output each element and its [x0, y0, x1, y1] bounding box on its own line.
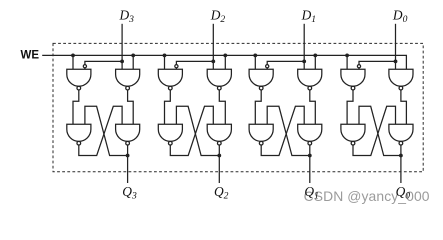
svg-text:WE: WE [21, 50, 40, 62]
svg-text:D3: D3 [119, 8, 135, 26]
label Q2 output [214, 184, 229, 202]
junction dot Q3 node [126, 154, 130, 158]
nand gate U1B (D1 and WE) [298, 69, 322, 90]
junction dot D0 tap [394, 60, 398, 64]
junction dot Q0 node [399, 154, 403, 158]
wire U3A output to latch reset input [73, 90, 79, 124]
wire D3 tap to inverted input [85, 61, 122, 64]
wire Q0 feedback to U0C input (cross-couple) [359, 106, 401, 155]
label D1 data input [301, 8, 316, 26]
junction dot Q2 node [217, 154, 221, 158]
svg-text:D2: D2 [210, 8, 226, 26]
wire D0 tap to inverted input [359, 61, 396, 64]
svg-text:Q3: Q3 [122, 184, 137, 202]
wire bubble to gate U3A input [84, 68, 86, 69]
wire D2 vertical input line [212, 24, 214, 69]
nand gate U1D (latch Q) [298, 124, 322, 145]
junction dot WE to U1A [253, 54, 257, 58]
label Q0 output [396, 184, 411, 202]
wire bubble to gate U0A input [358, 68, 360, 69]
wire Qbar3 feedback to U3D input (cross-couple) [79, 106, 122, 155]
wire U1A output to latch reset input [255, 90, 261, 124]
wire U1B output to latch set input [310, 90, 316, 124]
svg-text:Q0: Q0 [396, 184, 411, 202]
nand gate U0C (latch Qbar) [341, 124, 365, 145]
label D3 data input [119, 8, 135, 26]
nand gate U2D (latch Q) [207, 124, 231, 145]
wire D1 vertical input line [303, 24, 305, 69]
nand gate U3A (WE and not-D3) [67, 69, 91, 90]
wire U2A output to latch reset input [165, 90, 171, 124]
wire D3 vertical input line [121, 24, 123, 69]
wire WE drop to U2B right input [224, 55, 226, 69]
svg-text:D0: D0 [392, 8, 408, 26]
wire bubble to gate U2A input [175, 68, 177, 69]
wire Q1 output line [309, 145, 311, 183]
wire Qbar0 feedback to U0D input (cross-couple) [353, 106, 396, 155]
wire Qbar2 feedback to U2D input (cross-couple) [170, 106, 213, 155]
wire Q2 feedback to U2C input (cross-couple) [176, 106, 219, 155]
nand gate U2B (D2 and WE) [207, 69, 231, 90]
wire Q2 output line [218, 145, 220, 183]
junction dot WE to U2A [163, 54, 167, 58]
nand gate U3D (latch Q) [116, 124, 140, 145]
nand gate U0A (WE and not-D0) [341, 69, 365, 90]
junction dot Q1 node [308, 154, 312, 158]
wire U0B output to latch set input [401, 90, 407, 124]
wire WE drop to U3B right input [132, 55, 134, 69]
nand gate U1A (WE and not-D1) [249, 69, 273, 90]
svg-text:D1: D1 [301, 8, 316, 26]
inverter bubble on D3 input of gate U3A [83, 65, 86, 68]
junction dot D3 tap [120, 60, 124, 64]
junction dot WE to U1B [313, 54, 317, 58]
label D2 data input [210, 8, 226, 26]
nand gate U1C (latch Qbar) [249, 124, 273, 145]
wire D2 tap to inverted input [176, 61, 213, 64]
wire Q0 output line [400, 145, 402, 183]
wire U3B output to latch set input [128, 90, 134, 124]
wire D1 tap to inverted input [267, 61, 304, 64]
wire WE input lead [42, 54, 73, 56]
junction dot WE to U3A [71, 54, 75, 58]
wire WE drop to U1A left input [254, 55, 256, 69]
junction dot D2 tap [211, 60, 215, 64]
nand gate U3B (D3 and WE) [116, 69, 140, 90]
nand gate U2C (latch Qbar) [158, 124, 182, 145]
watermark text [304, 188, 430, 204]
nand gate U0B (D0 and WE) [389, 69, 413, 90]
wire WE drop to U1B right input [314, 55, 316, 69]
junction dot WE to U0A [345, 54, 349, 58]
inverter bubble on D2 input of gate U2A [175, 65, 178, 68]
wire D0 vertical input line [395, 24, 397, 69]
wire WE drop to U0A left input [346, 55, 348, 69]
junction dot WE to U3B [131, 54, 135, 58]
svg-text:Q2: Q2 [214, 184, 229, 202]
label D0 data input [392, 8, 408, 26]
svg-text:CSDN @yancy_000: CSDN @yancy_000 [304, 188, 430, 204]
nand gate U2A (WE and not-D2) [158, 69, 182, 90]
wire WE drop to U3A left input [72, 55, 74, 69]
inverter bubble on D0 input of gate U0A [357, 65, 360, 68]
wire Q1 feedback to U1C input (cross-couple) [267, 106, 310, 155]
wire bubble to gate U1A input [266, 68, 268, 69]
wire Q3 output line [127, 145, 129, 183]
label WE (write-enable input) [21, 50, 40, 62]
svg-text:Q1: Q1 [304, 184, 318, 202]
wire WE rail across all cells [73, 55, 406, 69]
nand gate U3C (latch Qbar) [67, 124, 91, 145]
nand gate U0D (latch Q) [389, 124, 413, 145]
wire U0A output to latch reset input [347, 90, 353, 124]
inverter bubble on D1 input of gate U1A [266, 65, 269, 68]
dashed enclosure box of latch array [53, 43, 423, 171]
wire U2B output to latch set input [219, 90, 225, 124]
wire Q3 feedback to U3C input (cross-couple) [85, 106, 128, 155]
wire Qbar1 feedback to U1D input (cross-couple) [261, 106, 304, 155]
junction dot WE to U2B [223, 54, 227, 58]
wire WE drop to U2A left input [164, 55, 166, 69]
junction dot D1 tap [302, 60, 306, 64]
label Q3 output [122, 184, 137, 202]
label Q1 output [304, 184, 318, 202]
